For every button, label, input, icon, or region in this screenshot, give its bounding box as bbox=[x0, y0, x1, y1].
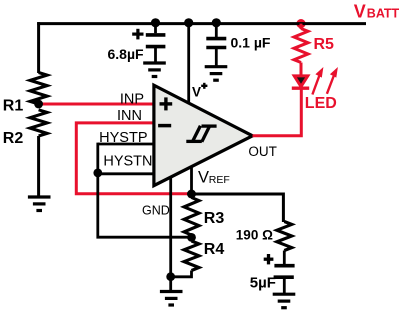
node dot R5 tap (red, under top rail) bbox=[296, 19, 305, 28]
LED D1 triangle bbox=[294, 76, 308, 87]
pin minus symbol INN bbox=[158, 124, 171, 128]
svg-text:REF: REF bbox=[209, 174, 230, 186]
resistor R5 (red) bbox=[294, 29, 308, 63]
svg-text:V: V bbox=[192, 84, 201, 99]
node dot C1 on rail bbox=[151, 18, 160, 27]
wire INP (red) from R1/R2 tap bbox=[39, 103, 153, 106]
node dot R1/R2 tap bbox=[34, 100, 43, 109]
wire 190ohm to C3 bbox=[283, 251, 286, 265]
svg-text:OUT: OUT bbox=[248, 144, 277, 159]
hysteresis symbol inside U1 bbox=[186, 126, 216, 142]
node dot VREF bbox=[187, 190, 196, 199]
svg-text:V: V bbox=[354, 1, 366, 21]
wire R2 bottom to ground bbox=[37, 136, 40, 197]
capacitor C3 5uF plates bbox=[274, 266, 295, 278]
svg-text:R1: R1 bbox=[3, 97, 24, 114]
capacitor C3 bottom stub bbox=[283, 277, 286, 294]
wire R5 to LED (red) bbox=[300, 63, 303, 77]
svg-text:R2: R2 bbox=[3, 130, 24, 147]
plus sign C3 bbox=[264, 254, 274, 264]
capacitor C2 bottom stub bbox=[215, 48, 218, 67]
svg-text:0.1 µF: 0.1 µF bbox=[231, 35, 271, 51]
node dot GND/R4 join bbox=[166, 272, 175, 281]
node dot C2 on rail bbox=[212, 18, 221, 27]
wire V+ drop to comparator bbox=[187, 22, 190, 103]
node dot R3/R4 tap bbox=[187, 233, 196, 242]
resistor R4 bbox=[184, 241, 199, 271]
ground under C3 bbox=[273, 294, 296, 308]
capacitor C1 bottom stub bbox=[154, 47, 157, 63]
LED arrow 2 bbox=[330, 67, 338, 78]
svg-text:R5: R5 bbox=[314, 36, 335, 53]
wire HYSTP bbox=[98, 143, 154, 146]
wire 190ohm branch drop bbox=[282, 193, 285, 223]
capacitor C1 6.8uF stub top bbox=[154, 24, 157, 34]
resistor R2 bbox=[30, 110, 47, 136]
resistor R6 190ohm bbox=[277, 222, 292, 251]
svg-text:R4: R4 bbox=[204, 241, 225, 258]
wire left drop to R1 bbox=[37, 22, 40, 73]
svg-text:190 Ω: 190 Ω bbox=[236, 228, 273, 243]
svg-text:INP: INP bbox=[120, 92, 144, 108]
ground under R2 bbox=[28, 197, 51, 211]
svg-text:HYSTN: HYSTN bbox=[103, 153, 152, 169]
svg-text:INN: INN bbox=[117, 108, 142, 124]
wire top supply rail bbox=[37, 22, 366, 25]
resistor R3 bbox=[184, 198, 199, 236]
LED arrow 1 bbox=[315, 67, 323, 78]
svg-text:6.8µF: 6.8µF bbox=[108, 46, 145, 62]
wire VREF node to right branch bbox=[192, 193, 284, 196]
capacitor C2 0.1uF stub bbox=[215, 24, 218, 37]
svg-text:HYSTP: HYSTP bbox=[99, 130, 147, 146]
wire INN loop (red) bbox=[76, 123, 190, 194]
ground under GND pin bbox=[160, 292, 183, 306]
resistor R5 stub (red) bbox=[300, 24, 303, 29]
capacitor C2 0.1uF plates bbox=[206, 39, 226, 48]
wire HYST vertical run down bbox=[98, 143, 192, 238]
wire R4 bottom to GND run bbox=[171, 271, 192, 277]
svg-text:LED: LED bbox=[305, 95, 337, 112]
svg-text:BATT: BATT bbox=[367, 6, 400, 20]
op-amp U1 comparator triangle bbox=[154, 85, 253, 185]
wire HYSTN bbox=[98, 172, 154, 175]
svg-text:5µF: 5µF bbox=[250, 274, 276, 291]
resistor R1 bbox=[30, 73, 47, 105]
LED D1 cathode bar bbox=[292, 87, 309, 90]
pin plus symbol INP bbox=[160, 97, 173, 110]
ground under C2 bbox=[205, 67, 228, 81]
wire GND pin drop bbox=[169, 177, 172, 291]
svg-text:R3: R3 bbox=[204, 210, 225, 227]
svg-text:V: V bbox=[198, 168, 209, 186]
node dot HYSTP/HYSTN join bbox=[93, 169, 102, 178]
wire R3 top stub bbox=[190, 194, 193, 198]
node dot V+ on rail bbox=[184, 18, 193, 27]
svg-text:GND: GND bbox=[142, 204, 170, 218]
wire VREF drop from U1 bbox=[190, 167, 193, 194]
wire OUT (red) bbox=[253, 90, 302, 136]
ground under C1 bbox=[143, 63, 166, 77]
capacitor C1 6.8uF plates bbox=[146, 35, 166, 47]
plus sign C1 bbox=[132, 29, 143, 40]
